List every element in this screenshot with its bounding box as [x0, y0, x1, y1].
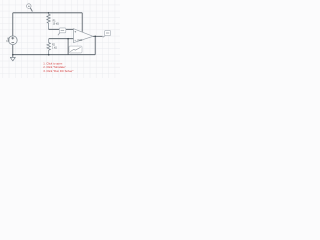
resistor R2: [47, 39, 50, 55]
svg-text:1. Click to open: 1. Click to open: [43, 61, 62, 65]
magnifier icon: [27, 4, 33, 12]
node: junction R1 top: [48, 12, 50, 14]
wire: output: [93, 35, 103, 37]
node: junction rail left: [12, 54, 14, 56]
op-amp OA1: [74, 29, 94, 43]
comment bubble B: [103, 30, 111, 37]
ground: [10, 57, 15, 61]
node: junction output/feedback: [94, 36, 96, 38]
svg-text:9 V: 9 V: [6, 41, 10, 43]
wire: V1 bottom to ground: [12, 45, 14, 58]
svg-text:2. Click "Simulate": 2. Click "Simulate": [43, 65, 65, 69]
resistor R1: [47, 13, 50, 30]
wire: - input: [49, 38, 74, 40]
comment bubble A: [58, 28, 66, 35]
svg-text:10 kΩ: 10 kΩ: [53, 24, 59, 26]
wire: feedback vertical from output to rail: [94, 36, 96, 54]
wire: + input: [49, 28, 74, 30]
waveform preview icon: [69, 46, 82, 53]
wire: power drop to op-amp top: [81, 13, 83, 32]
wire: bottom ground rail: [13, 54, 95, 56]
svg-text:OA1: OA1: [77, 38, 83, 42]
svg-text:1 kΩ: 1 kΩ: [52, 47, 57, 49]
wire: - input drop to ground rail: [67, 39, 69, 55]
voltage source V1: [8, 36, 17, 45]
node: junction rail R2: [48, 54, 50, 56]
background: [0, 0, 120, 78]
svg-text:3. Click "Run DC Solver": 3. Click "Run DC Solver": [43, 69, 73, 73]
grid: [0, 0, 120, 78]
wire: left vertical from top rail to V1: [12, 13, 14, 36]
node: junction - input: [67, 38, 69, 40]
wire: top supply rail: [13, 12, 82, 14]
